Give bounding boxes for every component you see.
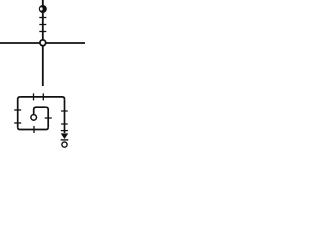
diode D1 triangle	[61, 133, 69, 139]
diode tick 3	[61, 130, 68, 132]
enclosure left edge	[18, 97, 20, 127]
coil riser wire	[34, 107, 46, 114]
tick 1	[39, 17, 46, 19]
diode D1 cathode bar	[61, 139, 69, 141]
enclosure bottom tick	[33, 126, 35, 133]
terminal T1 inner spot	[40, 7, 43, 10]
enclosure top edge	[20, 97, 64, 99]
tick 3	[39, 31, 46, 33]
diode tick 1	[61, 110, 68, 112]
node A circle	[40, 40, 46, 46]
wire horizontal bus	[0, 42, 85, 44]
wire diode branch	[64, 99, 66, 133]
terminal T1 circle	[39, 5, 47, 13]
enclosure right tick	[45, 117, 52, 119]
enclosure left tick 1	[14, 109, 21, 111]
enclosure top tick 1	[33, 93, 35, 100]
enclosure bottom edge	[18, 127, 49, 129]
coil K1 circle	[31, 115, 37, 121]
wire top lead	[42, 0, 44, 6]
wire vertical lower	[42, 46, 44, 86]
enclosure left tick 2	[14, 122, 21, 124]
wire vertical upper	[42, 12, 44, 40]
enclosure right edge	[46, 107, 48, 127]
enclosure top tick 2	[42, 93, 44, 100]
tick 2	[39, 24, 46, 26]
terminal T2 circle	[62, 142, 67, 147]
diode tick 2	[61, 123, 68, 125]
